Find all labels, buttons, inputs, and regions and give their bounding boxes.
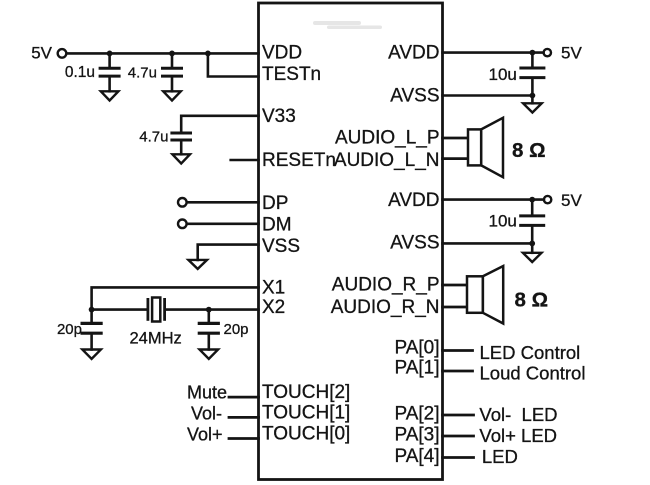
svg-text:5V: 5V bbox=[561, 191, 582, 210]
wire X2 bbox=[92, 308, 147, 311]
svg-text:AUDIO_R_P: AUDIO_R_P bbox=[332, 275, 440, 296]
svg-text:5V: 5V bbox=[31, 44, 52, 63]
svg-text:DM: DM bbox=[262, 215, 292, 236]
capacitor C7 10u bbox=[521, 200, 544, 244]
svg-text:AVSS: AVSS bbox=[390, 233, 439, 254]
5V terminal right top bbox=[544, 49, 551, 56]
wire X1 bbox=[92, 287, 259, 309]
svg-text:10u: 10u bbox=[489, 212, 517, 231]
wire TOUCH0 stub bbox=[229, 437, 259, 440]
wire PA1 stub bbox=[443, 370, 473, 373]
node VDD-C2 bbox=[169, 51, 175, 57]
capacitor C1 0.1u bbox=[100, 53, 119, 91]
node VDD-C1 bbox=[107, 51, 113, 57]
svg-text:10u: 10u bbox=[489, 65, 517, 84]
svg-text:Vol+: Vol+ bbox=[187, 424, 223, 444]
ground bbox=[101, 91, 119, 100]
wire PA2 stub bbox=[443, 414, 474, 417]
capacitor C3 4.7u bbox=[172, 133, 191, 154]
svg-text:X2: X2 bbox=[262, 297, 285, 318]
wire AVDD bottom bbox=[443, 198, 544, 201]
wire TESTn branch bbox=[208, 53, 259, 76]
wire AUDIO_L_N bbox=[443, 157, 469, 160]
speaker LS2 bbox=[467, 266, 503, 324]
ground bbox=[188, 260, 207, 269]
capacitor C4 20p bbox=[82, 310, 101, 350]
svg-text:AVDD: AVDD bbox=[388, 43, 439, 64]
wire DM bbox=[187, 223, 259, 226]
ground bbox=[200, 350, 219, 359]
ground bbox=[523, 243, 542, 262]
svg-text:Vol-: Vol- bbox=[191, 403, 222, 423]
svg-text:8 Ω: 8 Ω bbox=[515, 288, 549, 311]
wire AUDIO_R_P bbox=[443, 284, 468, 287]
svg-text:4.7u: 4.7u bbox=[139, 128, 168, 145]
svg-text:TOUCH[2]: TOUCH[2] bbox=[262, 382, 350, 403]
node AVSS2-gnd bbox=[529, 241, 535, 247]
ground bbox=[523, 96, 542, 113]
wire DP bbox=[187, 201, 259, 204]
svg-text:5V: 5V bbox=[561, 44, 582, 63]
wire TOUCH2 stub bbox=[229, 396, 259, 399]
wire PA3 stub bbox=[443, 435, 474, 438]
op-amp U1 : main IC body bbox=[259, 3, 443, 480]
svg-text:4.7u: 4.7u bbox=[128, 65, 157, 82]
svg-text:LED: LED bbox=[482, 446, 518, 467]
svg-text:Loud Control: Loud Control bbox=[480, 363, 586, 384]
wire AUDIO_L_P bbox=[443, 137, 469, 140]
wire AVSS top bbox=[443, 94, 533, 97]
wire V33 bbox=[181, 116, 258, 132]
svg-text:Vol+ LED: Vol+ LED bbox=[479, 425, 557, 446]
svg-text:PA[4]: PA[4] bbox=[394, 446, 439, 467]
watermark smudge bbox=[313, 21, 382, 29]
svg-text:20p: 20p bbox=[57, 321, 82, 338]
svg-text:AVSS: AVSS bbox=[390, 86, 439, 107]
capacitor C5 20p bbox=[199, 310, 218, 350]
wire RESETn stub bbox=[231, 159, 259, 162]
wire AVSS bottom bbox=[443, 242, 533, 245]
svg-text:Mute: Mute bbox=[187, 383, 227, 403]
svg-text:20p: 20p bbox=[224, 321, 249, 338]
ground bbox=[163, 91, 181, 100]
svg-text:AUDIO_L_P: AUDIO_L_P bbox=[335, 128, 440, 149]
ground bbox=[82, 350, 101, 359]
node AVSS-gnd bbox=[530, 93, 536, 99]
svg-text:TOUCH[0]: TOUCH[0] bbox=[262, 424, 350, 445]
svg-text:RESETn: RESETn bbox=[262, 150, 336, 171]
5V terminal left bbox=[58, 49, 67, 58]
crystal Y1 24MHz bbox=[148, 298, 165, 322]
svg-text:PA[2]: PA[2] bbox=[394, 404, 439, 425]
capacitor C6 10u bbox=[521, 53, 544, 96]
wire PA0 stub bbox=[443, 349, 473, 352]
svg-text:V33: V33 bbox=[262, 106, 296, 127]
node VDD-TESTn bbox=[205, 51, 211, 57]
svg-text:24MHz: 24MHz bbox=[130, 329, 182, 347]
svg-text:LED Control: LED Control bbox=[480, 342, 581, 363]
svg-text:0.1u: 0.1u bbox=[65, 64, 95, 81]
wire X2 right bbox=[165, 308, 258, 311]
wire PA4 stub bbox=[443, 456, 474, 459]
capacitor C2 4.7u bbox=[163, 53, 182, 91]
svg-text:DP: DP bbox=[262, 193, 288, 214]
speaker LS1 bbox=[468, 118, 503, 177]
svg-text:VDD: VDD bbox=[262, 43, 302, 64]
svg-text:AUDIO_R_N: AUDIO_R_N bbox=[331, 297, 440, 318]
ground bbox=[172, 154, 190, 163]
svg-text:PA[1]: PA[1] bbox=[394, 358, 439, 379]
node AVDD-C6 bbox=[530, 50, 536, 56]
svg-text:8 Ω: 8 Ω bbox=[512, 139, 546, 162]
wire VSS bbox=[198, 245, 259, 260]
node X2-C4 bbox=[89, 307, 95, 313]
wire AVDD top bbox=[443, 51, 544, 54]
wire VDD net bbox=[67, 52, 259, 55]
svg-text:TOUCH[1]: TOUCH[1] bbox=[262, 403, 350, 424]
terminal DM bbox=[178, 220, 187, 229]
svg-text:AVDD: AVDD bbox=[388, 190, 439, 211]
wire AUDIO_R_N bbox=[443, 306, 468, 309]
svg-text:PA[3]: PA[3] bbox=[394, 425, 439, 446]
wire TOUCH1 stub bbox=[229, 416, 259, 419]
svg-text:X1: X1 bbox=[262, 277, 285, 298]
svg-text:Vol- LED: Vol- LED bbox=[479, 404, 557, 425]
terminal DP bbox=[178, 198, 187, 207]
5V terminal right bottom bbox=[544, 196, 551, 203]
node X2-C5 bbox=[206, 307, 212, 313]
node AVDD2-C7 bbox=[529, 197, 535, 203]
svg-text:PA[0]: PA[0] bbox=[394, 338, 439, 359]
svg-text:AUDIO_L_N: AUDIO_L_N bbox=[334, 150, 440, 171]
svg-text:TESTn: TESTn bbox=[262, 64, 321, 85]
svg-text:VSS: VSS bbox=[262, 236, 300, 257]
